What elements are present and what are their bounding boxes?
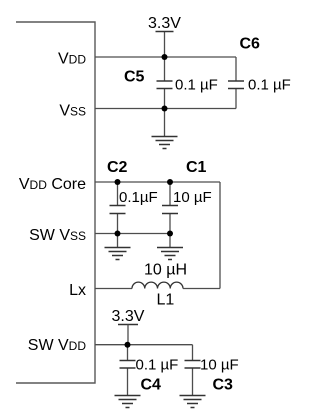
power 3.3V top bar — [156, 31, 174, 33]
svg-text:3.3V: 3.3V — [148, 15, 181, 32]
svg-text:C5: C5 — [124, 69, 145, 86]
capacitor C1 — [162, 206, 178, 214]
IC U1 outline — [16, 22, 95, 383]
power 3.3V bottom bar — [118, 324, 138, 326]
wire node A to C6 top — [165, 56, 237, 58]
ground G1 — [152, 137, 178, 149]
wire SW VDD pin to C3 — [95, 344, 193, 346]
svg-text:10 µF: 10 µF — [173, 189, 212, 206]
wire C3 branch — [192, 345, 194, 396]
svg-text:C2: C2 — [107, 159, 128, 176]
capacitor C2 — [110, 206, 126, 214]
node C2 top junction — [115, 179, 121, 185]
wire C2 branch — [117, 182, 119, 248]
wire 3.3V rail to ground through C5 — [164, 32, 166, 137]
svg-text:10 µF: 10 µF — [200, 357, 239, 374]
node SW VDD junction — [125, 342, 131, 348]
node C2 bottom junction — [115, 231, 121, 237]
node B junction — [162, 106, 168, 112]
node C1 top junction — [167, 179, 173, 185]
ground G4 — [115, 396, 141, 408]
svg-text:VSS: VSS — [59, 103, 86, 120]
wire C6 branch — [235, 57, 237, 109]
wire node B to C6 bottom — [165, 108, 237, 110]
svg-text:10 µH: 10 µH — [144, 262, 187, 279]
capacitor C6 — [228, 81, 244, 89]
wire VDD Core pin to right rail — [95, 181, 220, 183]
svg-text:0.1 µF: 0.1 µF — [136, 357, 179, 374]
wire C1 branch — [169, 182, 171, 248]
ground G3 — [157, 248, 183, 260]
svg-text:3.3V: 3.3V — [112, 308, 145, 325]
node A junction — [162, 54, 168, 60]
wire SW VSS pin — [95, 233, 170, 235]
svg-text:C6: C6 — [240, 36, 261, 53]
svg-text:C1: C1 — [186, 159, 207, 176]
wire 3.3V bottom to SW VDD node — [127, 325, 129, 345]
svg-text:C4: C4 — [141, 377, 162, 394]
capacitor C3 — [185, 361, 201, 369]
svg-text:0.1 µF: 0.1 µF — [175, 77, 218, 94]
svg-text:VDD: VDD — [58, 51, 86, 68]
ground G2 — [105, 248, 131, 260]
svg-text:L1: L1 — [157, 292, 175, 309]
wire VSS pin to node B — [95, 108, 165, 110]
svg-text:0.1 µF: 0.1 µF — [248, 77, 291, 94]
wire C4 branch — [127, 345, 129, 396]
svg-text:Lx: Lx — [69, 282, 86, 299]
ground G5 — [180, 396, 206, 408]
inductor L1 — [132, 282, 183, 288]
svg-text:SW VDD: SW VDD — [28, 337, 87, 354]
svg-text:0.1µF: 0.1µF — [119, 189, 158, 206]
svg-text:SW VSS: SW VSS — [29, 227, 86, 244]
wire VDD pin to node A — [95, 56, 165, 58]
capacitor C5 — [157, 81, 173, 89]
capacitor C4 — [120, 361, 136, 369]
svg-text:VDD Core: VDD Core — [19, 176, 86, 193]
node C1 bottom junction — [167, 231, 173, 237]
wire Lx pin to inductor — [95, 288, 132, 290]
wire inductor to right rail — [183, 288, 220, 290]
svg-text:C3: C3 — [213, 377, 234, 394]
wire right rail — [219, 182, 221, 289]
